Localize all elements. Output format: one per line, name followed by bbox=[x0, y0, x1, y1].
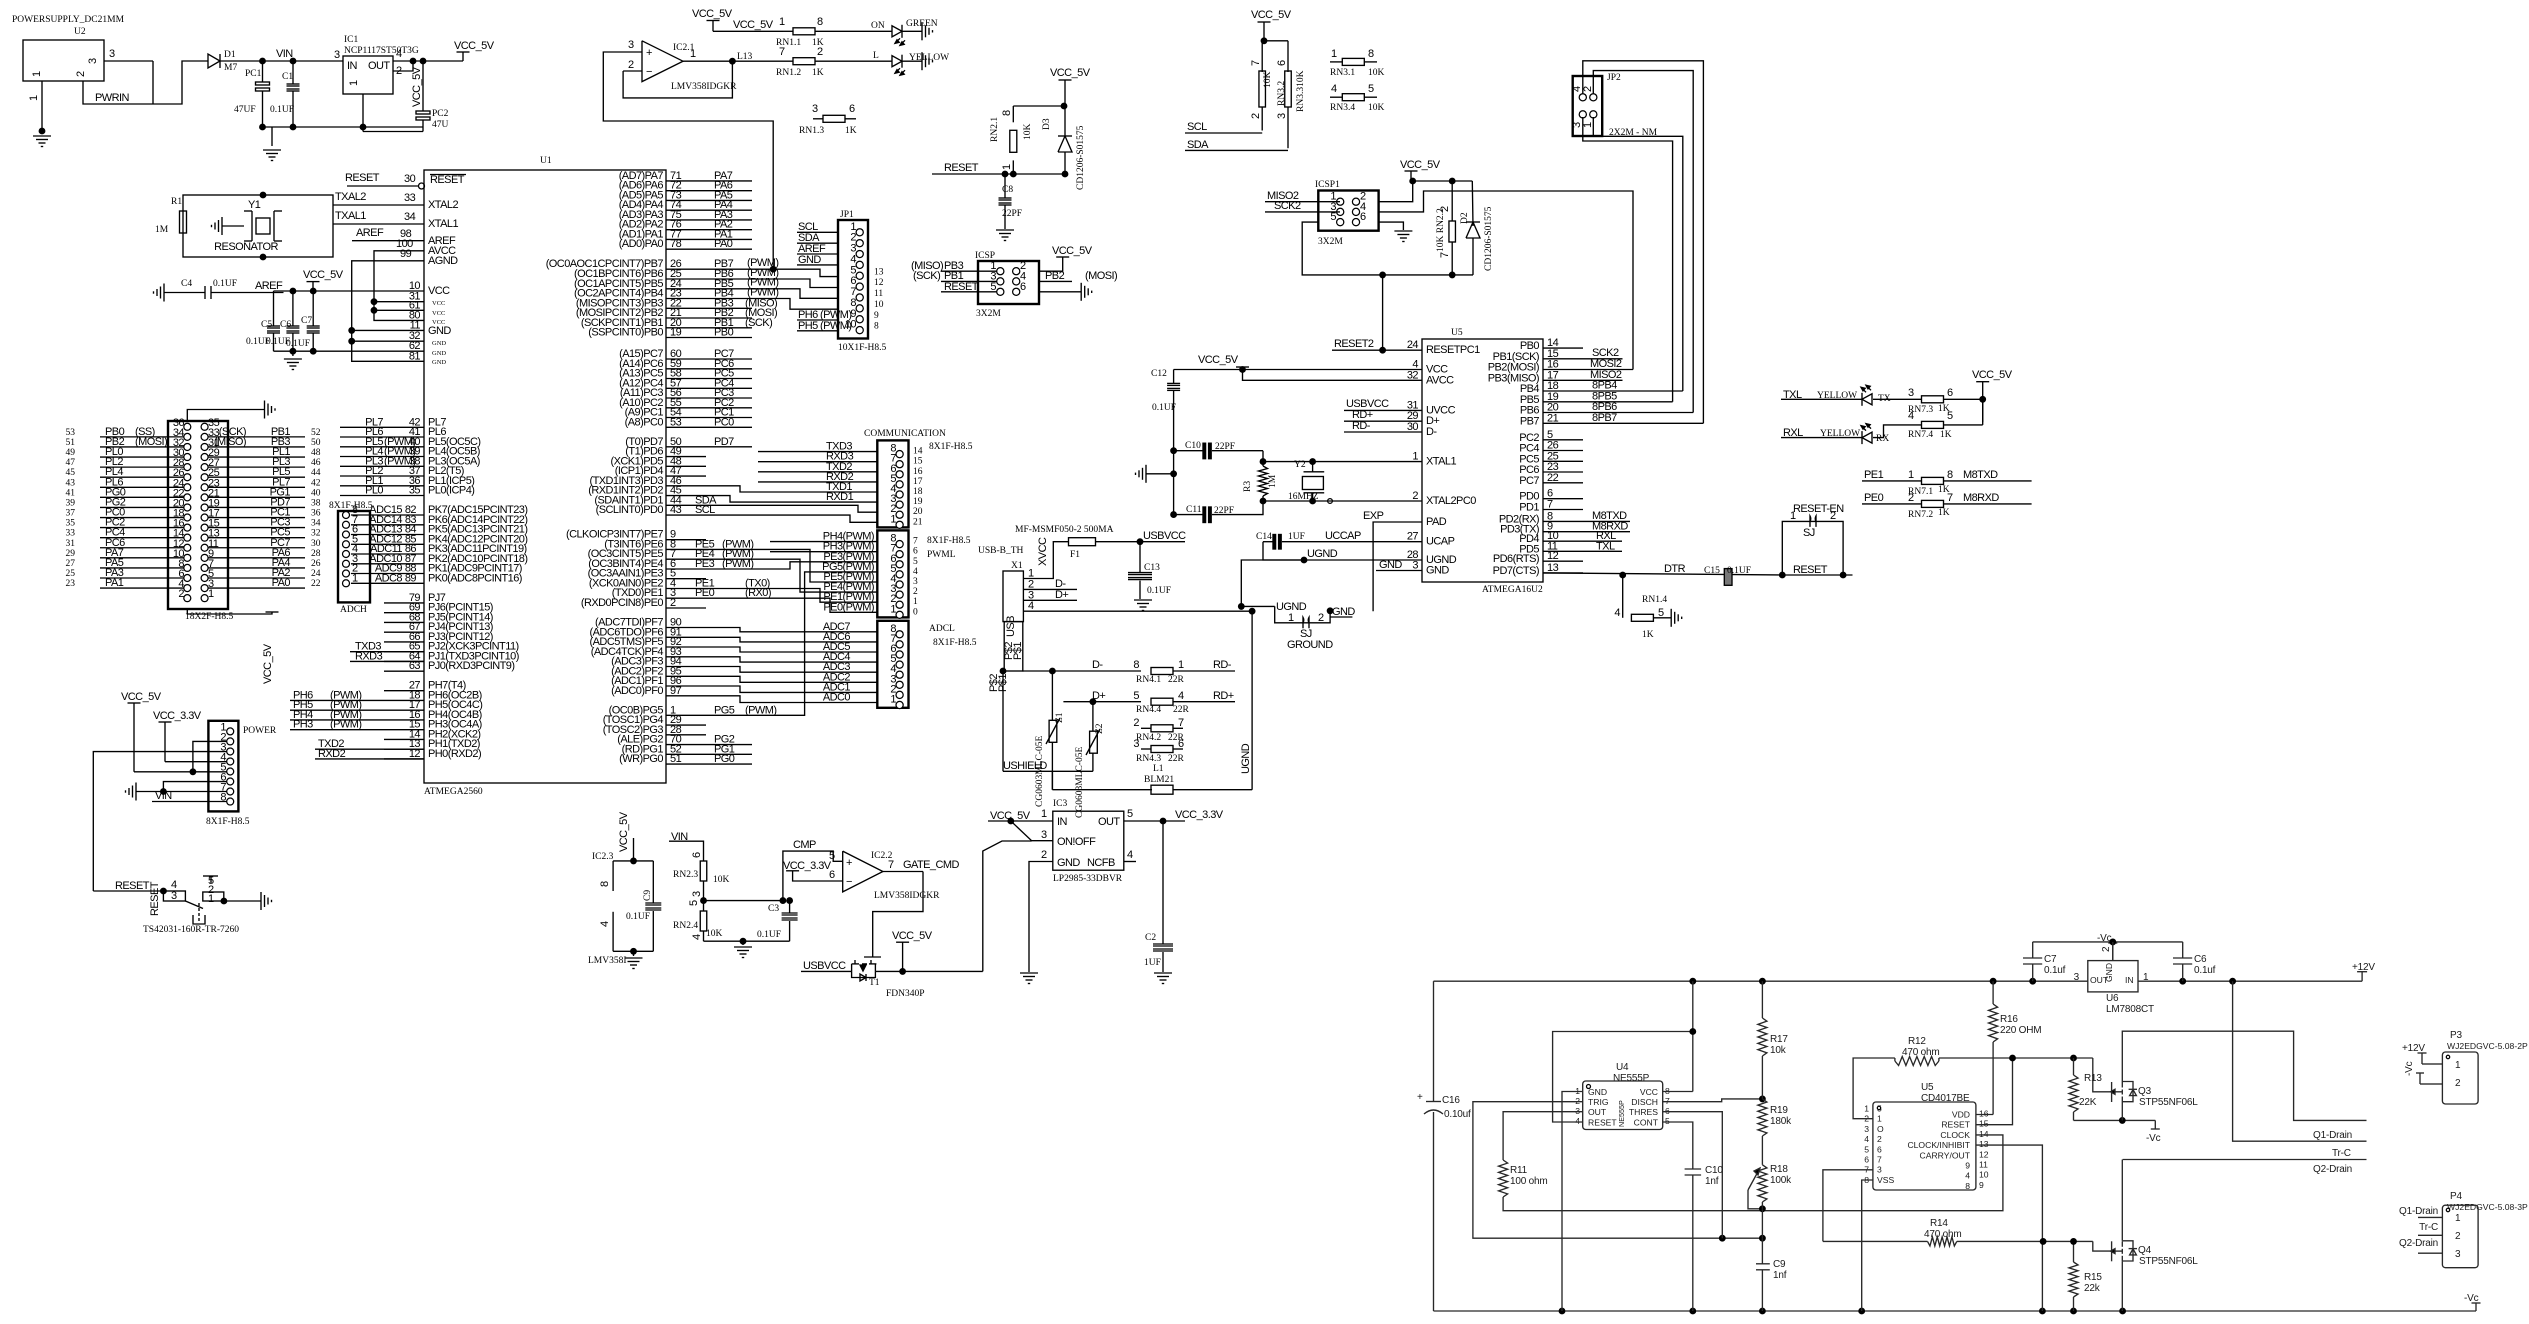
svg-text:ADCH: ADCH bbox=[340, 605, 367, 615]
svg-text:EXP: EXP bbox=[1363, 510, 1384, 522]
svg-text:YELLOW: YELLOW bbox=[1820, 429, 1860, 439]
svg-text:(AD0)PA0: (AD0)PA0 bbox=[619, 238, 664, 250]
svg-text:3: 3 bbox=[913, 577, 918, 587]
U1 port D pins bbox=[666, 446, 706, 448]
svg-text:GND: GND bbox=[1588, 1087, 1607, 1097]
svg-text:3: 3 bbox=[1041, 829, 1047, 841]
svg-text:1: 1 bbox=[1288, 612, 1294, 624]
wire opamp +input bbox=[625, 51, 643, 53]
svg-text:XVCC: XVCC bbox=[1037, 537, 1049, 566]
wire row PB1 bbox=[208, 436, 305, 438]
wire IC3 GND bbox=[1029, 862, 1053, 973]
svg-text:ICSP1: ICSP1 bbox=[1315, 180, 1340, 190]
svg-text:-Vc: -Vc bbox=[2404, 1061, 2415, 1076]
wire icsp1 pin2 to vcc rail bbox=[1379, 181, 1413, 202]
U1 port E pins bbox=[666, 539, 706, 541]
U5 pin PD7(CTS) bbox=[1543, 572, 1583, 574]
switch dashed actuator bbox=[198, 903, 200, 922]
svg-text:1nf: 1nf bbox=[1773, 1270, 1787, 1281]
wire row PL3 bbox=[208, 466, 305, 468]
svg-text:1: 1 bbox=[28, 95, 40, 101]
COMM pin 6 bbox=[896, 471, 903, 478]
svg-text:19: 19 bbox=[913, 497, 923, 507]
wire ADC7 to ADCL bbox=[706, 628, 877, 632]
wire POWER pin6 bbox=[163, 782, 227, 792]
svg-text:RESET: RESET bbox=[944, 162, 979, 174]
capacitor C6 0.1uf bbox=[2182, 942, 2184, 958]
svg-text:6: 6 bbox=[1020, 281, 1026, 293]
svg-text:2: 2 bbox=[1412, 490, 1418, 502]
svg-text:NE555P: NE555P bbox=[1613, 1073, 1650, 1084]
wire PB3 PB2 PB1 PB0 ext bbox=[706, 307, 752, 309]
wire row PL0 bbox=[100, 456, 184, 458]
svg-text:LMV358IDGKR: LMV358IDGKR bbox=[671, 82, 737, 92]
svg-text:CD1206-S01575: CD1206-S01575 bbox=[1076, 125, 1086, 190]
svg-text:STP55NF06L: STP55NF06L bbox=[2139, 1256, 2198, 1267]
wire POWER pin2 bbox=[193, 741, 227, 771]
svg-text:(SSPCINT0)PB0: (SSPCINT0)PB0 bbox=[588, 327, 663, 339]
svg-text:2: 2 bbox=[1908, 492, 1914, 504]
wire POWER pin7 ground bbox=[136, 791, 227, 793]
U5 pin PB3(MISO) bbox=[1543, 379, 1583, 381]
svg-text:DISCH: DISCH bbox=[1631, 1097, 1658, 1107]
svg-text:6: 6 bbox=[1276, 60, 1288, 66]
wire 555 RESET to VCC bbox=[1553, 1032, 1693, 1123]
svg-text:5: 5 bbox=[1133, 690, 1139, 702]
wire row PL6 bbox=[100, 486, 184, 488]
svg-text:4: 4 bbox=[1028, 600, 1034, 612]
svg-text:VCC_5V: VCC_5V bbox=[1400, 159, 1441, 171]
svg-text:PH0(RXD2): PH0(RXD2) bbox=[428, 748, 481, 760]
svg-text:P3: P3 bbox=[2450, 1030, 2462, 1041]
svg-text:0.1UF: 0.1UF bbox=[213, 279, 237, 289]
wire 555 VCC pin8 bbox=[1692, 981, 1694, 1091]
svg-text:7: 7 bbox=[779, 46, 785, 58]
svg-text:C10: C10 bbox=[1705, 1165, 1723, 1176]
resistor R19 180k bbox=[1758, 1099, 1767, 1136]
svg-text:RN2.1: RN2.1 bbox=[990, 117, 1000, 142]
svg-text:5: 5 bbox=[1864, 1144, 1869, 1154]
svg-text:ADC0: ADC0 bbox=[823, 692, 851, 704]
svg-text:PC0: PC0 bbox=[714, 416, 734, 428]
svg-text:22PF: 22PF bbox=[1002, 209, 1022, 219]
wire Q4 source down bbox=[2121, 1261, 2123, 1311]
capacitor C8 22PF bbox=[1004, 174, 1006, 198]
U5 pin PB5 bbox=[1543, 401, 1583, 403]
resistor R17 10k bbox=[1761, 981, 1763, 1018]
svg-text:3: 3 bbox=[628, 39, 634, 51]
svg-text:1K: 1K bbox=[1940, 430, 1952, 440]
svg-text:2: 2 bbox=[1318, 612, 1324, 624]
svg-text:1: 1 bbox=[1877, 1114, 1882, 1124]
mosfet Q3 STP55NF06L bbox=[2111, 1082, 2113, 1102]
svg-text:29: 29 bbox=[66, 549, 76, 559]
wire IC2.3 pin4 bbox=[612, 912, 614, 952]
svg-text:6: 6 bbox=[849, 103, 855, 115]
svg-text:D2: D2 bbox=[1460, 212, 1470, 224]
svg-text:4: 4 bbox=[1178, 690, 1184, 702]
svg-text:CLOCK/INHIBIT: CLOCK/INHIBIT bbox=[1907, 1140, 1970, 1150]
svg-text:33: 33 bbox=[404, 192, 416, 204]
svg-text:1M: 1M bbox=[1268, 474, 1278, 488]
svg-text:RXD2: RXD2 bbox=[318, 748, 346, 760]
wire 4017 out1 to R12 bbox=[1853, 1058, 1895, 1119]
wire IC2.3 pin8 bbox=[612, 861, 614, 891]
svg-text:16: 16 bbox=[1979, 1109, 1989, 1119]
wire row PL4 bbox=[100, 476, 184, 478]
wire row PC3 bbox=[208, 527, 305, 529]
svg-text:10k: 10k bbox=[1770, 1045, 1787, 1056]
svg-text:40: 40 bbox=[311, 488, 321, 498]
svg-text:1M: 1M bbox=[155, 225, 169, 235]
svg-text:23: 23 bbox=[66, 579, 76, 589]
U5 pin PD6(RTS) bbox=[1543, 560, 1583, 562]
svg-text:3X2M: 3X2M bbox=[976, 309, 1001, 319]
COMM pin 1 bbox=[896, 521, 903, 528]
ICSP1 pin circles bbox=[1337, 198, 1344, 205]
svg-text:VCC: VCC bbox=[428, 285, 450, 297]
svg-text:(PWM): (PWM) bbox=[745, 704, 776, 716]
wire to PC2 bbox=[422, 61, 424, 111]
svg-text:0.1UF: 0.1UF bbox=[1147, 586, 1171, 596]
svg-text:1: 1 bbox=[31, 71, 43, 77]
svg-text:C4: C4 bbox=[181, 279, 192, 289]
svg-text:PD6(RTS): PD6(RTS) bbox=[1493, 553, 1539, 565]
svg-text:0: 0 bbox=[913, 607, 918, 617]
ADCL pin 5 bbox=[896, 661, 903, 668]
wire U5 VCC AVCC bbox=[1174, 369, 1422, 371]
wire opamp feedback bbox=[623, 61, 732, 98]
svg-text:Y2: Y2 bbox=[1294, 460, 1306, 470]
wire PB6 to JP1 bbox=[706, 279, 838, 288]
svg-text:2: 2 bbox=[2455, 1078, 2461, 1089]
wire OUT long to 4017 clock bbox=[1503, 1135, 2003, 1211]
svg-text:U5: U5 bbox=[1921, 1082, 1934, 1093]
U5 pin PC5 bbox=[1543, 460, 1583, 462]
wire IC2.3 bottom bbox=[613, 950, 653, 952]
wire POWER pin5 VCC_5V bbox=[134, 771, 227, 773]
svg-text:XTAL1: XTAL1 bbox=[1426, 456, 1456, 468]
PWML pin 4 bbox=[896, 581, 903, 588]
svg-text:BLM21: BLM21 bbox=[1144, 775, 1174, 785]
svg-text:PE1: PE1 bbox=[1864, 469, 1884, 481]
svg-text:4: 4 bbox=[1614, 607, 1620, 619]
svg-text:17: 17 bbox=[913, 477, 923, 487]
wire opamp input from PB7 bbox=[603, 52, 773, 269]
svg-text:OUT: OUT bbox=[368, 60, 390, 72]
wire row PC5 bbox=[208, 537, 305, 539]
svg-text:IN: IN bbox=[347, 60, 358, 72]
LED TX yellow bbox=[1861, 393, 1863, 406]
svg-text:8PB7: 8PB7 bbox=[1592, 412, 1617, 424]
svg-text:7: 7 bbox=[1250, 60, 1262, 66]
PWML pin 5 bbox=[896, 571, 903, 578]
U1 port F pins bbox=[666, 627, 706, 629]
wire 4017 CLOCK/INHIBIT down bbox=[1976, 1145, 2042, 1311]
wire TX to RN7.3 bbox=[1873, 398, 1921, 400]
wire vcc rail caps bbox=[274, 290, 425, 292]
svg-text:RD-: RD- bbox=[1352, 420, 1371, 432]
wire gate cmd to T1 bbox=[873, 872, 923, 958]
svg-text:6: 6 bbox=[1360, 211, 1366, 223]
svg-text:8X1F-H8.5: 8X1F-H8.5 bbox=[929, 442, 973, 452]
svg-text:1: 1 bbox=[1864, 1104, 1869, 1114]
svg-text:8X1F-H8.5: 8X1F-H8.5 bbox=[329, 501, 373, 511]
svg-text:7: 7 bbox=[888, 859, 894, 871]
ICSP pin circles bbox=[997, 268, 1004, 275]
wire U2 pin3 bbox=[104, 60, 153, 62]
svg-text:3: 3 bbox=[1864, 1124, 1869, 1134]
wire gnd rail bbox=[263, 126, 424, 128]
ground after green led bbox=[902, 30, 922, 32]
svg-text:CMP: CMP bbox=[793, 839, 816, 851]
wire divider bottom rail bbox=[704, 940, 790, 942]
svg-text:R19: R19 bbox=[1770, 1105, 1788, 1116]
svg-text:VCC: VCC bbox=[1640, 1087, 1658, 1097]
svg-text:2: 2 bbox=[178, 588, 184, 600]
svg-text:1: 1 bbox=[1582, 122, 1594, 128]
svg-text:C8: C8 bbox=[1002, 185, 1013, 195]
svg-text:22R: 22R bbox=[1168, 675, 1185, 685]
svg-text:AREF: AREF bbox=[356, 227, 384, 239]
wire row PG0 bbox=[100, 496, 184, 498]
svg-text:89: 89 bbox=[405, 572, 417, 584]
U5 pin PC7 bbox=[1543, 482, 1583, 484]
diode D2 vertical bbox=[1471, 181, 1474, 226]
svg-text:33: 33 bbox=[66, 529, 76, 539]
wire 555 OUT pin3 via R11 bbox=[1503, 1112, 1583, 1160]
resistor R11 100 ohm bbox=[1499, 1160, 1508, 1197]
wire 18X2F top to ground bbox=[187, 410, 264, 422]
svg-text:(MISO): (MISO) bbox=[214, 436, 246, 448]
wire 555 THRES pin6 bbox=[1663, 1112, 1723, 1239]
wire row PL2 bbox=[100, 466, 184, 468]
svg-text:37: 37 bbox=[66, 509, 76, 519]
wire row PC1 bbox=[208, 517, 305, 519]
svg-text:10K: 10K bbox=[1368, 103, 1385, 113]
svg-text:6: 6 bbox=[1178, 738, 1184, 750]
svg-text:M8TXD: M8TXD bbox=[1963, 469, 1998, 481]
wire row PA3 bbox=[100, 577, 184, 579]
wire R12 to Q3 gate bbox=[1939, 1057, 2093, 1059]
svg-text:10K: 10K bbox=[706, 929, 723, 939]
svg-text:0.10uf: 0.10uf bbox=[1444, 1109, 1471, 1120]
wire opamp output bbox=[683, 60, 793, 62]
svg-text:STP55NF06L: STP55NF06L bbox=[2139, 1097, 2198, 1108]
wire vcc rail to RN2.2 D2 bbox=[1411, 180, 1472, 182]
svg-text:D-: D- bbox=[1426, 426, 1437, 438]
svg-text:5: 5 bbox=[688, 900, 700, 906]
wire row PB2 bbox=[100, 446, 184, 448]
svg-text:(ADC0)PF0: (ADC0)PF0 bbox=[611, 685, 663, 697]
svg-text:Y1: Y1 bbox=[248, 199, 261, 211]
svg-text:8: 8 bbox=[1965, 1181, 1970, 1191]
trimmer R18 100k bbox=[1761, 1136, 1763, 1165]
svg-text:GND: GND bbox=[428, 325, 451, 337]
svg-text:30: 30 bbox=[1407, 421, 1419, 433]
svg-text:AREF: AREF bbox=[255, 280, 283, 292]
svg-text:GND: GND bbox=[798, 254, 821, 266]
COMM pin 2 bbox=[896, 511, 903, 518]
wire row PL5 bbox=[208, 476, 305, 478]
U5 pin PB4 bbox=[1543, 390, 1583, 392]
capacitor C9 0.1UF bbox=[652, 861, 654, 903]
PWML pin 2 bbox=[896, 601, 903, 608]
svg-text:6: 6 bbox=[1665, 1106, 1670, 1116]
svg-text:PD7(CTS): PD7(CTS) bbox=[1493, 565, 1539, 577]
svg-text:10K: 10K bbox=[1023, 124, 1033, 141]
svg-text:PE0: PE0 bbox=[695, 587, 715, 599]
svg-text:38: 38 bbox=[311, 498, 321, 508]
svg-text:D3: D3 bbox=[1042, 118, 1052, 130]
svg-text:6: 6 bbox=[829, 869, 835, 881]
svg-text:30: 30 bbox=[404, 173, 416, 185]
svg-text:RESET2: RESET2 bbox=[1334, 338, 1374, 350]
wire JP2 pin4 bus 8PB7 bbox=[1583, 61, 1704, 424]
svg-text:PA0: PA0 bbox=[272, 577, 291, 589]
svg-text:ATMEGA16U2: ATMEGA16U2 bbox=[1482, 585, 1543, 595]
svg-text:(A8)PC0: (A8)PC0 bbox=[625, 416, 664, 428]
svg-text:VCC_5V: VCC_5V bbox=[692, 8, 733, 20]
crystal Y1 bbox=[251, 211, 253, 241]
wire row PA7 bbox=[100, 557, 184, 559]
svg-text:1UF: 1UF bbox=[1288, 532, 1305, 542]
svg-text:VCC_5V: VCC_5V bbox=[454, 40, 495, 52]
wire to RN1.1 bbox=[713, 30, 783, 32]
LED RX yellow bbox=[1861, 431, 1863, 444]
diode D1 M7 bbox=[208, 54, 220, 68]
svg-text:C7: C7 bbox=[2044, 954, 2057, 965]
svg-text:0.1UF: 0.1UF bbox=[626, 912, 650, 922]
svg-text:5: 5 bbox=[1665, 1116, 1670, 1126]
svg-text:RESET: RESET bbox=[1588, 1117, 1617, 1127]
svg-text:Q2-Drain: Q2-Drain bbox=[2313, 1164, 2352, 1175]
svg-text:12: 12 bbox=[1547, 550, 1559, 562]
svg-text:2: 2 bbox=[1877, 1134, 1882, 1144]
svg-text:RN3.1: RN3.1 bbox=[1330, 68, 1355, 78]
svg-text:PC7: PC7 bbox=[1519, 475, 1539, 487]
wire ADC1 to ADCL bbox=[706, 686, 877, 692]
svg-text:1: 1 bbox=[779, 16, 785, 28]
svg-text:22R: 22R bbox=[1168, 754, 1185, 764]
svg-text:21: 21 bbox=[913, 517, 923, 527]
pin circle RESET bbox=[419, 183, 425, 189]
svg-text:22: 22 bbox=[311, 579, 321, 589]
wire X1 pin1 XVCC to F1 bbox=[1042, 542, 1069, 579]
svg-text:RESET-EN: RESET-EN bbox=[1793, 503, 1844, 515]
svg-text:2: 2 bbox=[396, 65, 402, 77]
svg-text:1: 1 bbox=[1041, 808, 1047, 820]
wire IC3 OUT VCC_3.3V bbox=[1124, 820, 1185, 822]
svg-text:RESET: RESET bbox=[149, 881, 161, 916]
svg-text:PK0(ADC8PCINT16): PK0(ADC8PCINT16) bbox=[428, 572, 522, 584]
svg-text:PB7: PB7 bbox=[1520, 415, 1540, 427]
wire U2 pin1 to ground bbox=[41, 81, 43, 131]
wire C12 ground bbox=[1171, 471, 1177, 477]
svg-text:F1: F1 bbox=[1070, 550, 1080, 560]
svg-text:VCC_5V: VCC_5V bbox=[121, 691, 162, 703]
svg-text:4: 4 bbox=[691, 934, 703, 940]
svg-text:100 ohm: 100 ohm bbox=[1510, 1176, 1548, 1187]
svg-text:PWRIN: PWRIN bbox=[95, 92, 130, 104]
svg-text:C6: C6 bbox=[280, 320, 291, 330]
svg-text:8: 8 bbox=[874, 322, 879, 332]
wire icsp1 pin4 MOSI2 long bbox=[1379, 191, 1633, 370]
svg-text:0.1uf: 0.1uf bbox=[2044, 965, 2066, 976]
svg-text:RN4.4: RN4.4 bbox=[1136, 705, 1161, 715]
svg-text:34: 34 bbox=[311, 519, 321, 529]
U1 port A pins PA7-PA0 bbox=[666, 180, 752, 182]
svg-text:RESET: RESET bbox=[115, 880, 150, 892]
wire ICSP pin4 PB2 MOSI bbox=[1039, 280, 1072, 282]
connector ADCL 8X1F-H8.5 body bbox=[877, 621, 908, 708]
svg-text:43: 43 bbox=[66, 478, 76, 488]
wire usbvcc rail up to IC3 ONOFF bbox=[983, 841, 1032, 971]
PWML pin 8 bbox=[896, 541, 903, 548]
svg-text:Z2: Z2 bbox=[1095, 723, 1105, 734]
svg-text:2: 2 bbox=[1041, 849, 1047, 861]
svg-text:1: 1 bbox=[352, 572, 358, 584]
ground under C8 bbox=[996, 229, 1014, 231]
svg-text:27: 27 bbox=[66, 559, 76, 569]
U1 port H pins bbox=[384, 690, 424, 692]
capacitor C4 0.1UF with ground bbox=[163, 284, 165, 302]
svg-text:D1: D1 bbox=[224, 50, 236, 60]
svg-text:GATE_CMD: GATE_CMD bbox=[903, 859, 960, 871]
wire AGND bbox=[352, 261, 424, 362]
wire R14 to Q4 gate bbox=[1957, 1240, 2093, 1242]
svg-text:5: 5 bbox=[913, 557, 918, 567]
svg-text:16: 16 bbox=[913, 467, 923, 477]
svg-text:X1: X1 bbox=[1011, 561, 1023, 571]
svg-text:5: 5 bbox=[990, 281, 996, 293]
svg-text:−: − bbox=[646, 66, 652, 78]
svg-text:PWML: PWML bbox=[927, 550, 956, 560]
wire PB7 to JP1 and opamp bbox=[706, 269, 838, 276]
svg-text:5: 5 bbox=[1947, 410, 1953, 422]
svg-text:VCC_5V: VCC_5V bbox=[1050, 67, 1091, 79]
svg-text:10K: 10K bbox=[1263, 72, 1273, 89]
svg-text:2: 2 bbox=[628, 59, 634, 71]
U1 port G pins bbox=[666, 714, 706, 716]
svg-text:12: 12 bbox=[1979, 1149, 1989, 1159]
varistor Z2 CG0603MLC-05E bbox=[1092, 702, 1094, 732]
svg-text:13: 13 bbox=[1979, 1139, 1989, 1149]
svg-text:UCCAP: UCCAP bbox=[1325, 530, 1361, 542]
svg-text:JP1: JP1 bbox=[840, 210, 854, 220]
svg-text:(PWM): (PWM) bbox=[722, 558, 753, 570]
svg-text:7: 7 bbox=[1665, 1096, 1670, 1106]
svg-text:1: 1 bbox=[2455, 1060, 2461, 1071]
svg-text:25: 25 bbox=[66, 569, 76, 579]
wire 555 CONT pin5 to C10 bbox=[1663, 1122, 1693, 1169]
svg-text:AVCC: AVCC bbox=[1426, 374, 1454, 386]
wire IC1 pin2 bbox=[393, 61, 413, 71]
svg-text:GND: GND bbox=[1057, 857, 1080, 869]
svg-text:32: 32 bbox=[1407, 369, 1419, 381]
COMM pin 7 bbox=[896, 461, 903, 468]
svg-text:GND: GND bbox=[1426, 565, 1449, 577]
wire caps bottom rail bbox=[274, 350, 352, 352]
connector pin circles and numbers bbox=[184, 423, 191, 430]
wire IC3 NCFB stub bbox=[1124, 861, 1136, 863]
svg-text:VCC_5V: VCC_5V bbox=[411, 66, 423, 107]
capacitor C1 0.1UF bbox=[290, 58, 296, 64]
svg-text:R11: R11 bbox=[1510, 1165, 1528, 1176]
svg-text:VCC_5V: VCC_5V bbox=[892, 930, 933, 942]
svg-text:U2: U2 bbox=[74, 27, 86, 37]
ground IC2.3 bbox=[633, 951, 635, 956]
